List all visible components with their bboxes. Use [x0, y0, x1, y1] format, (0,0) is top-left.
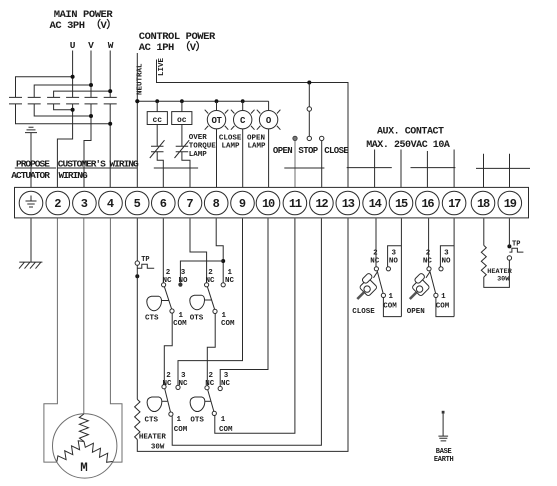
terminal 15: [389, 191, 413, 215]
terminal 16: [416, 191, 440, 215]
heater resistor: [135, 399, 140, 439]
wire K1c bottom to U: [54, 104, 73, 110]
svg-text:NC: NC: [178, 380, 188, 388]
svg-text:19: 19: [504, 197, 517, 211]
svg-text:OPEN: OPEN: [273, 146, 292, 156]
wire terminal 7 to OTS1: [190, 219, 207, 283]
OPEN cam: [410, 272, 430, 300]
wire stub terminal 19: [509, 154, 511, 188]
wire terminal 16 to OPEN NC: [428, 219, 430, 267]
switch OPEN NC contact: [427, 267, 431, 271]
wire stub terminal 18: [483, 154, 485, 188]
svg-text:TP: TP: [512, 241, 520, 249]
svg-text:3: 3: [181, 372, 186, 380]
svg-text:OTS: OTS: [190, 417, 204, 425]
svg-text:CTS: CTS: [145, 315, 159, 323]
OTS2 labels: [190, 372, 233, 434]
svg-text:7: 7: [186, 197, 193, 211]
svg-text:oc: oc: [177, 116, 187, 125]
svg-text:NC: NC: [423, 257, 433, 265]
switch OTS2 COM contact: [212, 411, 216, 415]
svg-text:NC: NC: [225, 277, 235, 285]
terminal 12: [310, 191, 334, 215]
wire CTS2 COM to terminal 12: [172, 219, 321, 446]
junction dot t8 branch: [221, 259, 225, 263]
svg-text:COM: COM: [174, 426, 188, 434]
svg-text:WIRING: WIRING: [59, 170, 89, 181]
wire terminal 18 to right heater: [483, 219, 485, 246]
svg-text:OPEN: OPEN: [247, 134, 265, 142]
svg-text:BASE: BASE: [436, 448, 452, 456]
svg-text:30W: 30W: [151, 444, 165, 452]
junction dots phase swap: [71, 75, 113, 126]
contactor contact K2c: [104, 97, 117, 104]
wire TP to terminal 19: [508, 219, 510, 247]
wire terminal 4 to motor (right): [110, 219, 122, 463]
neutral lamp bus: [137, 100, 268, 102]
wire terminal 3 to motor (center): [83, 219, 85, 415]
svg-text:EARTH: EARTH: [434, 456, 454, 464]
label BASE EARTH: [434, 448, 454, 464]
svg-text:18: 18: [477, 197, 490, 211]
wire phase V: [84, 51, 91, 188]
svg-text:12: 12: [315, 197, 328, 211]
terminal 13: [336, 191, 360, 215]
label OVER TORQUE LAMP: [189, 134, 217, 159]
wire t17 branch to OPEN NO: [440, 246, 454, 267]
switch OPEN COM contact: [434, 293, 438, 297]
wire terminal 5 to TP: [136, 219, 138, 261]
terminal 14: [363, 191, 387, 215]
wire V branch to contactor pole K1b: [34, 85, 91, 97]
switch CTS1 arm: [164, 287, 171, 309]
CTS2 cam link: [162, 400, 168, 402]
svg-text:NC: NC: [162, 277, 172, 285]
terminal 3: [73, 191, 97, 215]
contactor contact K2b: [85, 97, 98, 104]
terminal 1 earth: [19, 191, 43, 215]
switch CTS2 NC contact: [162, 385, 166, 389]
wire stub terminal 16: [426, 151, 428, 188]
svg-text:2: 2: [209, 372, 214, 380]
svg-text:16: 16: [421, 197, 434, 211]
lamp C: [231, 110, 255, 130]
thermal protector TP: [135, 256, 154, 278]
wire contact to terminal 7: [182, 152, 190, 188]
switch CLOSE COM contact: [381, 293, 385, 297]
svg-text:TP: TP: [141, 256, 149, 264]
terminal 4: [99, 191, 123, 215]
motor winding top: [79, 414, 88, 442]
wire terminal 8 to OTS1 second contact: [216, 219, 223, 283]
wire OTS1 COM to OTS2: [207, 314, 215, 386]
wire terminal 10 to OTS2 NO: [220, 219, 268, 387]
wire stub terminal 14: [374, 150, 376, 188]
switch OTS2 NO contact: [218, 386, 222, 390]
wire bus corner to O lamp: [268, 101, 270, 110]
svg-text:CTS: CTS: [145, 417, 159, 425]
svg-text:1: 1: [441, 293, 446, 301]
OTS1 cam link: [205, 299, 212, 301]
lamp O: [257, 110, 281, 130]
torque switch contact (oc branch): [175, 140, 190, 158]
svg-text:2: 2: [208, 269, 213, 277]
title MAIN POWER: [50, 9, 117, 32]
switch OPEN arm: [430, 271, 436, 293]
switch OTS1 arm: [207, 287, 214, 310]
motor M circle: [52, 414, 116, 478]
svg-text:OPEN: OPEN: [407, 308, 425, 316]
CTS1 cam: [147, 296, 162, 311]
svg-text:NO: NO: [389, 257, 399, 265]
terminal 9: [231, 191, 255, 215]
junction dots neutral bus: [135, 99, 244, 103]
svg-text:3: 3: [224, 372, 229, 380]
wire heater to terminal 13: [137, 219, 348, 452]
wire right heater bottom loop: [484, 260, 510, 287]
switch CTS2 NO contact: [176, 385, 180, 389]
contactor contact K1b: [28, 97, 41, 104]
svg-text:O: O: [266, 116, 272, 126]
switch CTS1 NO contact: [178, 283, 182, 287]
switch OPEN NO contact: [439, 267, 443, 271]
svg-text:U: U: [70, 40, 76, 51]
wire terminal 15 down: [400, 219, 402, 317]
boundary line segments: [15, 167, 530, 170]
pushbutton OPEN contact: [293, 136, 297, 187]
wire contact to terminal 6: [157, 152, 163, 188]
wire terminal 6 to CTS1: [162, 219, 164, 283]
terminal 11: [283, 191, 307, 215]
svg-text:LAMP: LAMP: [189, 151, 208, 159]
label HEATER 30W: [139, 434, 167, 452]
switch OTS2 arm: [208, 390, 214, 412]
terminal 7: [178, 191, 202, 215]
label PROPOSE ACTUATOR: [11, 159, 50, 182]
svg-text:CLOSE: CLOSE: [324, 146, 349, 156]
svg-text:9: 9: [239, 197, 246, 211]
label OPEN LAMP: [247, 134, 266, 150]
label CUSTOMER'S WIRING: [58, 159, 139, 182]
motor winding left: [57, 441, 84, 462]
svg-text:NC: NC: [162, 380, 172, 388]
svg-text:NC: NC: [205, 380, 215, 388]
wire O lamp to terminal 10: [268, 129, 270, 188]
button labels: [273, 146, 350, 156]
internal earth symbol: [25, 127, 37, 187]
phase labels U V W: [70, 40, 114, 51]
terminal 18: [471, 191, 495, 215]
svg-text:3: 3: [181, 269, 186, 277]
svg-text:10: 10: [262, 197, 275, 211]
terminal 2: [46, 191, 70, 215]
wire bus to cc: [156, 101, 158, 111]
OTS1 labels: [190, 269, 235, 328]
switch OTS1 COM contact: [213, 309, 217, 313]
svg-text:W: W: [108, 40, 114, 51]
label right HEATER 30W: [487, 268, 512, 283]
terminal 8: [204, 191, 228, 215]
pushbutton CLOSE contact: [320, 136, 324, 187]
wire earth to terminal 1: [30, 133, 32, 188]
svg-text:MAX. 250VAC 10A: MAX. 250VAC 10A: [366, 140, 450, 151]
svg-text:STOP: STOP: [298, 146, 318, 156]
wire C lamp to terminal 9: [242, 129, 244, 188]
svg-text:11: 11: [289, 197, 302, 211]
svg-text:5: 5: [134, 197, 141, 211]
switch CTS2 arm: [165, 389, 171, 412]
wire cc to torque contact: [156, 125, 158, 147]
wire terminal 17 down: [453, 219, 455, 317]
svg-text:1: 1: [178, 312, 183, 320]
pushbutton STOP: [307, 83, 311, 141]
svg-text:CUSTOMER'S WIRING: CUSTOMER'S WIRING: [58, 159, 139, 170]
svg-text:13: 13: [342, 197, 355, 211]
svg-text:LIVE: LIVE: [158, 57, 166, 76]
coil cc box: [147, 112, 167, 126]
switch CLOSE NC contact: [374, 267, 378, 271]
svg-text:2: 2: [166, 269, 171, 277]
switch CTS1 COM contact: [170, 309, 174, 313]
svg-text:NC: NC: [221, 380, 231, 388]
right thermal protector TP: [507, 241, 523, 261]
wire phase U: [57, 51, 72, 188]
motor winding right: [84, 442, 113, 463]
CLOSE cam: [357, 272, 377, 300]
wire CLOSE COM bottom: [383, 298, 401, 317]
svg-text:14: 14: [369, 197, 382, 211]
svg-text:ACTUATOR: ACTUATOR: [11, 170, 50, 181]
chassis earth symbol: [19, 262, 42, 269]
wire terminal 2 to motor (left): [44, 219, 58, 463]
svg-text:LAMP: LAMP: [248, 143, 267, 151]
OTS1 cam: [190, 295, 205, 310]
svg-text:3: 3: [81, 197, 88, 211]
terminal 6: [152, 191, 176, 215]
terminal 10: [256, 191, 280, 215]
svg-text:COM: COM: [383, 302, 397, 310]
wire terminal 14 to CLOSE NC: [375, 219, 377, 267]
svg-text:OVER: OVER: [189, 134, 208, 142]
svg-text:M: M: [80, 461, 88, 475]
svg-text:LAMP: LAMP: [222, 143, 241, 151]
wire bus to OT lamp: [216, 101, 218, 110]
wire phase W: [109, 51, 111, 188]
base earth stub: [438, 411, 448, 441]
wire TP to heater: [136, 265, 138, 399]
switch OTS1 second NC contact: [221, 283, 225, 287]
svg-text:COM: COM: [221, 320, 235, 328]
junction dot stop branch: [307, 81, 311, 85]
svg-text:COM: COM: [436, 302, 450, 310]
wire CTS1 NO to junction: [180, 261, 223, 282]
svg-text:TORQUE: TORQUE: [189, 143, 217, 151]
switch CLOSE NO contact: [386, 267, 390, 271]
svg-text:17: 17: [448, 197, 461, 211]
svg-text:6: 6: [160, 197, 167, 211]
wire bus to C lamp: [242, 101, 244, 110]
label AUX. CONTACT: [366, 127, 450, 151]
wire bus to oc: [181, 101, 183, 111]
svg-text:PROPOSE: PROPOSE: [16, 159, 50, 170]
svg-text:HEATER: HEATER: [139, 434, 167, 442]
terminal 5: [125, 191, 149, 215]
wire live line: [157, 60, 349, 188]
switch OTS2 NC contact: [205, 386, 209, 390]
svg-text:COM: COM: [173, 320, 187, 328]
svg-text:1: 1: [389, 293, 394, 301]
CLOSE switch labels: [352, 250, 398, 316]
wire OT lamp to terminal 8: [216, 129, 218, 188]
wire OPEN COM bottom: [436, 298, 454, 317]
svg-text:4: 4: [107, 197, 114, 211]
wire terminal1 to chassis earth: [30, 219, 32, 263]
terminal 19: [498, 191, 522, 215]
title CONTROL POWER: [139, 31, 216, 54]
wire neutral line to terminal 5: [136, 53, 138, 188]
wire stub terminal 15: [400, 150, 402, 188]
svg-text:OT: OT: [211, 116, 222, 126]
switch CTS1 NC contact: [162, 283, 166, 287]
svg-text:AC 3PH （V）: AC 3PH （V）: [50, 18, 117, 32]
switch OTS1 NC contact: [205, 283, 209, 287]
wire CTS1 COM to CTS2: [164, 313, 172, 385]
switch CLOSE arm: [377, 271, 383, 293]
lamp OT: [205, 110, 229, 130]
svg-text:1: 1: [221, 416, 226, 424]
wire W branch to contactor pole K1c: [54, 91, 111, 97]
wire t15 branch to CLOSE NO: [388, 246, 402, 267]
wire oc to torque contact: [181, 125, 183, 147]
svg-text:NC: NC: [370, 257, 380, 265]
wire OTS2 COM to terminal 11: [215, 219, 295, 434]
svg-text:30W: 30W: [497, 276, 510, 284]
svg-text:AUX. CONTACT: AUX. CONTACT: [377, 127, 444, 138]
svg-text:NC: NC: [205, 277, 215, 285]
CTS1 labels: [145, 269, 188, 328]
right heater resistor: [481, 245, 486, 277]
OTS2 cam link: [205, 400, 211, 402]
OTS2 cam: [190, 397, 205, 412]
svg-text:1: 1: [228, 269, 233, 277]
CTS2 labels: [145, 372, 188, 434]
contactor contact K2a: [66, 97, 79, 104]
svg-text:15: 15: [395, 197, 408, 211]
CTS1 cam link: [162, 300, 169, 302]
coil oc box: [172, 112, 192, 126]
svg-text:NO: NO: [441, 257, 451, 265]
contactor contact K1a: [9, 97, 22, 104]
switch CTS2 COM contact: [169, 412, 173, 416]
wire K1a bottom to W: [16, 104, 111, 124]
svg-text:C: C: [240, 116, 246, 126]
svg-text:1: 1: [176, 416, 181, 424]
svg-text:2: 2: [166, 372, 171, 380]
wire U branch to contactor pole K1a: [16, 77, 73, 98]
wire stub terminal 17: [453, 150, 455, 188]
svg-text:cc: cc: [152, 116, 162, 125]
svg-text:CLOSE: CLOSE: [219, 134, 242, 142]
svg-text:CLOSE: CLOSE: [352, 308, 375, 316]
svg-text:1: 1: [221, 312, 226, 320]
wire close button to terminal 12: [321, 141, 323, 188]
svg-text:AC 1PH （V）: AC 1PH （V）: [139, 40, 206, 54]
terminal strip box: [15, 187, 529, 218]
terminal 17: [442, 191, 466, 215]
OPEN switch labels: [407, 250, 451, 316]
torque switch contact (cc branch): [150, 140, 165, 158]
wire open button to terminal 11: [294, 141, 296, 188]
wire terminal 9 to CTS2 NO: [178, 219, 243, 386]
svg-text:V: V: [88, 40, 94, 51]
CTS2 cam: [147, 397, 162, 412]
label CLOSE LAMP: [219, 134, 242, 150]
contactor contact K1c: [47, 97, 60, 104]
svg-text:8: 8: [213, 197, 220, 211]
svg-text:OTS: OTS: [190, 315, 204, 323]
svg-text:2: 2: [54, 197, 61, 211]
wire K1b bottom to V: [34, 104, 91, 116]
